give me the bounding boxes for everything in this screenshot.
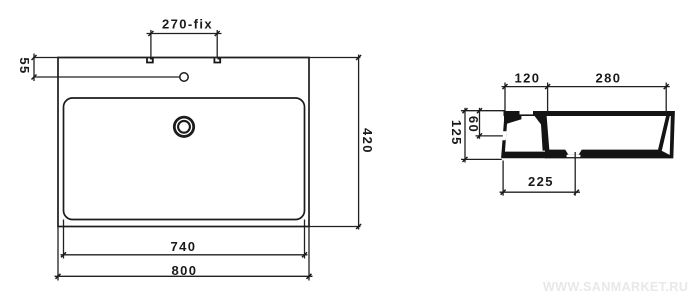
faucet hole [180, 73, 188, 81]
faucet hole in deck [520, 111, 534, 115]
tick 800 left [56, 274, 61, 279]
dim 800 ext right [308, 227, 310, 281]
dim 125 line [464, 108, 466, 163]
overflow hole in left wall [502, 131, 506, 140]
tick 270 left [148, 31, 153, 36]
ext 120 left [504, 83, 506, 112]
tick 420 top [356, 55, 361, 60]
dim 225 line [500, 191, 581, 193]
tick 55 top [32, 55, 37, 60]
dim 60 line [479, 108, 481, 139]
ext 225 left [502, 161, 504, 196]
tick 125 bottom [463, 157, 468, 162]
tick 800 right [307, 274, 312, 279]
corner blob [504, 112, 522, 125]
svg-text:WWW.SANMARKET.RU: WWW.SANMARKET.RU [543, 280, 688, 294]
dim 270-fix ext left [150, 30, 152, 58]
strip between void and bowl [534, 116, 549, 151]
inner bowl rounded rectangle [64, 98, 305, 220]
drain outer circle [174, 117, 193, 136]
dim 270-fix ext right [216, 30, 218, 58]
deck top edge [504, 111, 674, 116]
tick 740 left [61, 252, 66, 257]
tick 120 left [503, 84, 508, 89]
dim 270-fix line [147, 33, 222, 35]
dim 740 ext left [63, 220, 65, 259]
svg-text:740: 740 [171, 239, 197, 254]
outer rim rectangle [58, 58, 309, 227]
oblique ticks right view [463, 84, 669, 195]
svg-text:270-fix: 270-fix [162, 17, 213, 32]
tick 60 bottom [477, 133, 482, 138]
ext 280 right [665, 83, 667, 113]
svg-text:280: 280 [596, 71, 622, 86]
svg-text:225: 225 [528, 174, 554, 189]
dim 800 line [55, 275, 313, 277]
tick 55 bottom [32, 75, 37, 80]
dim 420 line [358, 55, 360, 230]
svg-text:120: 120 [515, 71, 541, 86]
drain notch lower gap [567, 155, 581, 157]
tick 125 top [463, 108, 468, 113]
tick 60 top [477, 108, 482, 113]
tick 225 left [501, 190, 506, 195]
dim 120/280 line [502, 86, 670, 88]
svg-text:420: 420 [360, 128, 375, 154]
ext overflow level [476, 135, 503, 137]
top edge extension line [34, 57, 360, 59]
fixing mark right [214, 58, 220, 62]
dim 740 line [61, 254, 308, 256]
ext top edge level [461, 110, 505, 112]
drain centerline [574, 152, 576, 196]
tick 280 right [664, 84, 669, 89]
right wall inner slant [658, 112, 671, 151]
right wall outer [670, 111, 675, 158]
oblique ticks left view [32, 31, 362, 279]
bottom edge extension line [309, 226, 360, 228]
fixing mark left [147, 58, 153, 62]
tick 225 right [574, 190, 579, 195]
dim 800 ext left [57, 227, 59, 281]
svg-text:60: 60 [466, 116, 481, 133]
band under void [502, 152, 547, 159]
svg-text:800: 800 [172, 263, 198, 278]
dim 55 ext vertical [33, 54, 35, 82]
tick 270 right [215, 31, 220, 36]
dim 55 line to faucet [34, 76, 180, 78]
drain inner circle [178, 121, 190, 133]
left wall [501, 112, 508, 158]
tick 120/280 mid [545, 84, 550, 89]
dim 740 ext right [304, 220, 306, 259]
bowl floor and bottom [545, 150, 670, 159]
tick 740 right [302, 252, 307, 257]
svg-text:55: 55 [17, 57, 32, 74]
tick 420 bottom [356, 224, 361, 229]
ext bottom level [461, 158, 502, 160]
drain notch trapezoid [565, 149, 582, 155]
svg-text:125: 125 [449, 120, 464, 146]
ext 120/280 middle [547, 83, 549, 113]
